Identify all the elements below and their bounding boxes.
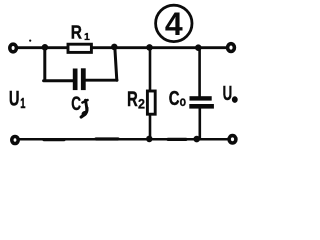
svg-text:U: U bbox=[223, 82, 233, 105]
figure number circle 4 bbox=[156, 5, 192, 42]
label R2 bbox=[127, 87, 145, 111]
junction node J1 bbox=[42, 44, 49, 51]
junction node J6 bbox=[193, 136, 200, 143]
svg-text:R: R bbox=[71, 22, 82, 43]
svg-text:C: C bbox=[169, 87, 180, 110]
svg-text:C: C bbox=[71, 94, 81, 115]
label C1 bbox=[71, 94, 88, 118]
resistor R2 bbox=[147, 91, 155, 114]
label C0 bbox=[169, 87, 186, 110]
wire loop right vertical bbox=[115, 47, 117, 80]
wire C0 branch top bbox=[198, 48, 201, 97]
wire R2 branch vertical bbox=[149, 47, 152, 139]
wire top rail bbox=[18, 46, 227, 49]
label R1 bbox=[71, 22, 90, 44]
label Ui bbox=[9, 87, 26, 113]
junction node J3 bbox=[146, 44, 153, 51]
terminal bottom-left bbox=[12, 137, 18, 144]
speckle bbox=[29, 40, 31, 42]
resistor R1 bbox=[68, 44, 91, 52]
svg-text:o: o bbox=[180, 93, 186, 109]
wire loop bottom right bbox=[85, 79, 117, 82]
svg-text:1: 1 bbox=[84, 31, 90, 43]
wire bottom rail bbox=[20, 138, 228, 141]
terminal bottom-right bbox=[229, 136, 236, 143]
junction node J2 bbox=[111, 44, 118, 51]
label Uo bbox=[223, 82, 238, 105]
junction node J5 bbox=[146, 136, 153, 143]
junction node J4 bbox=[195, 44, 202, 51]
svg-text:1: 1 bbox=[20, 95, 25, 112]
svg-text:U: U bbox=[9, 87, 20, 111]
wire loop bottom left bbox=[44, 79, 74, 82]
svg-text:R: R bbox=[127, 87, 138, 111]
wire loop left vertical bbox=[43, 47, 46, 79]
terminal top-right bbox=[228, 44, 235, 52]
svg-text:4: 4 bbox=[165, 6, 183, 42]
terminal top-left bbox=[10, 44, 17, 52]
wire texture bottom rail bbox=[44, 137, 186, 141]
svg-text:2: 2 bbox=[138, 96, 145, 111]
capacitor C1 plates bbox=[73, 68, 86, 90]
wire C0 branch bottom bbox=[199, 108, 202, 139]
capacitor C0 plates bbox=[189, 96, 214, 108]
